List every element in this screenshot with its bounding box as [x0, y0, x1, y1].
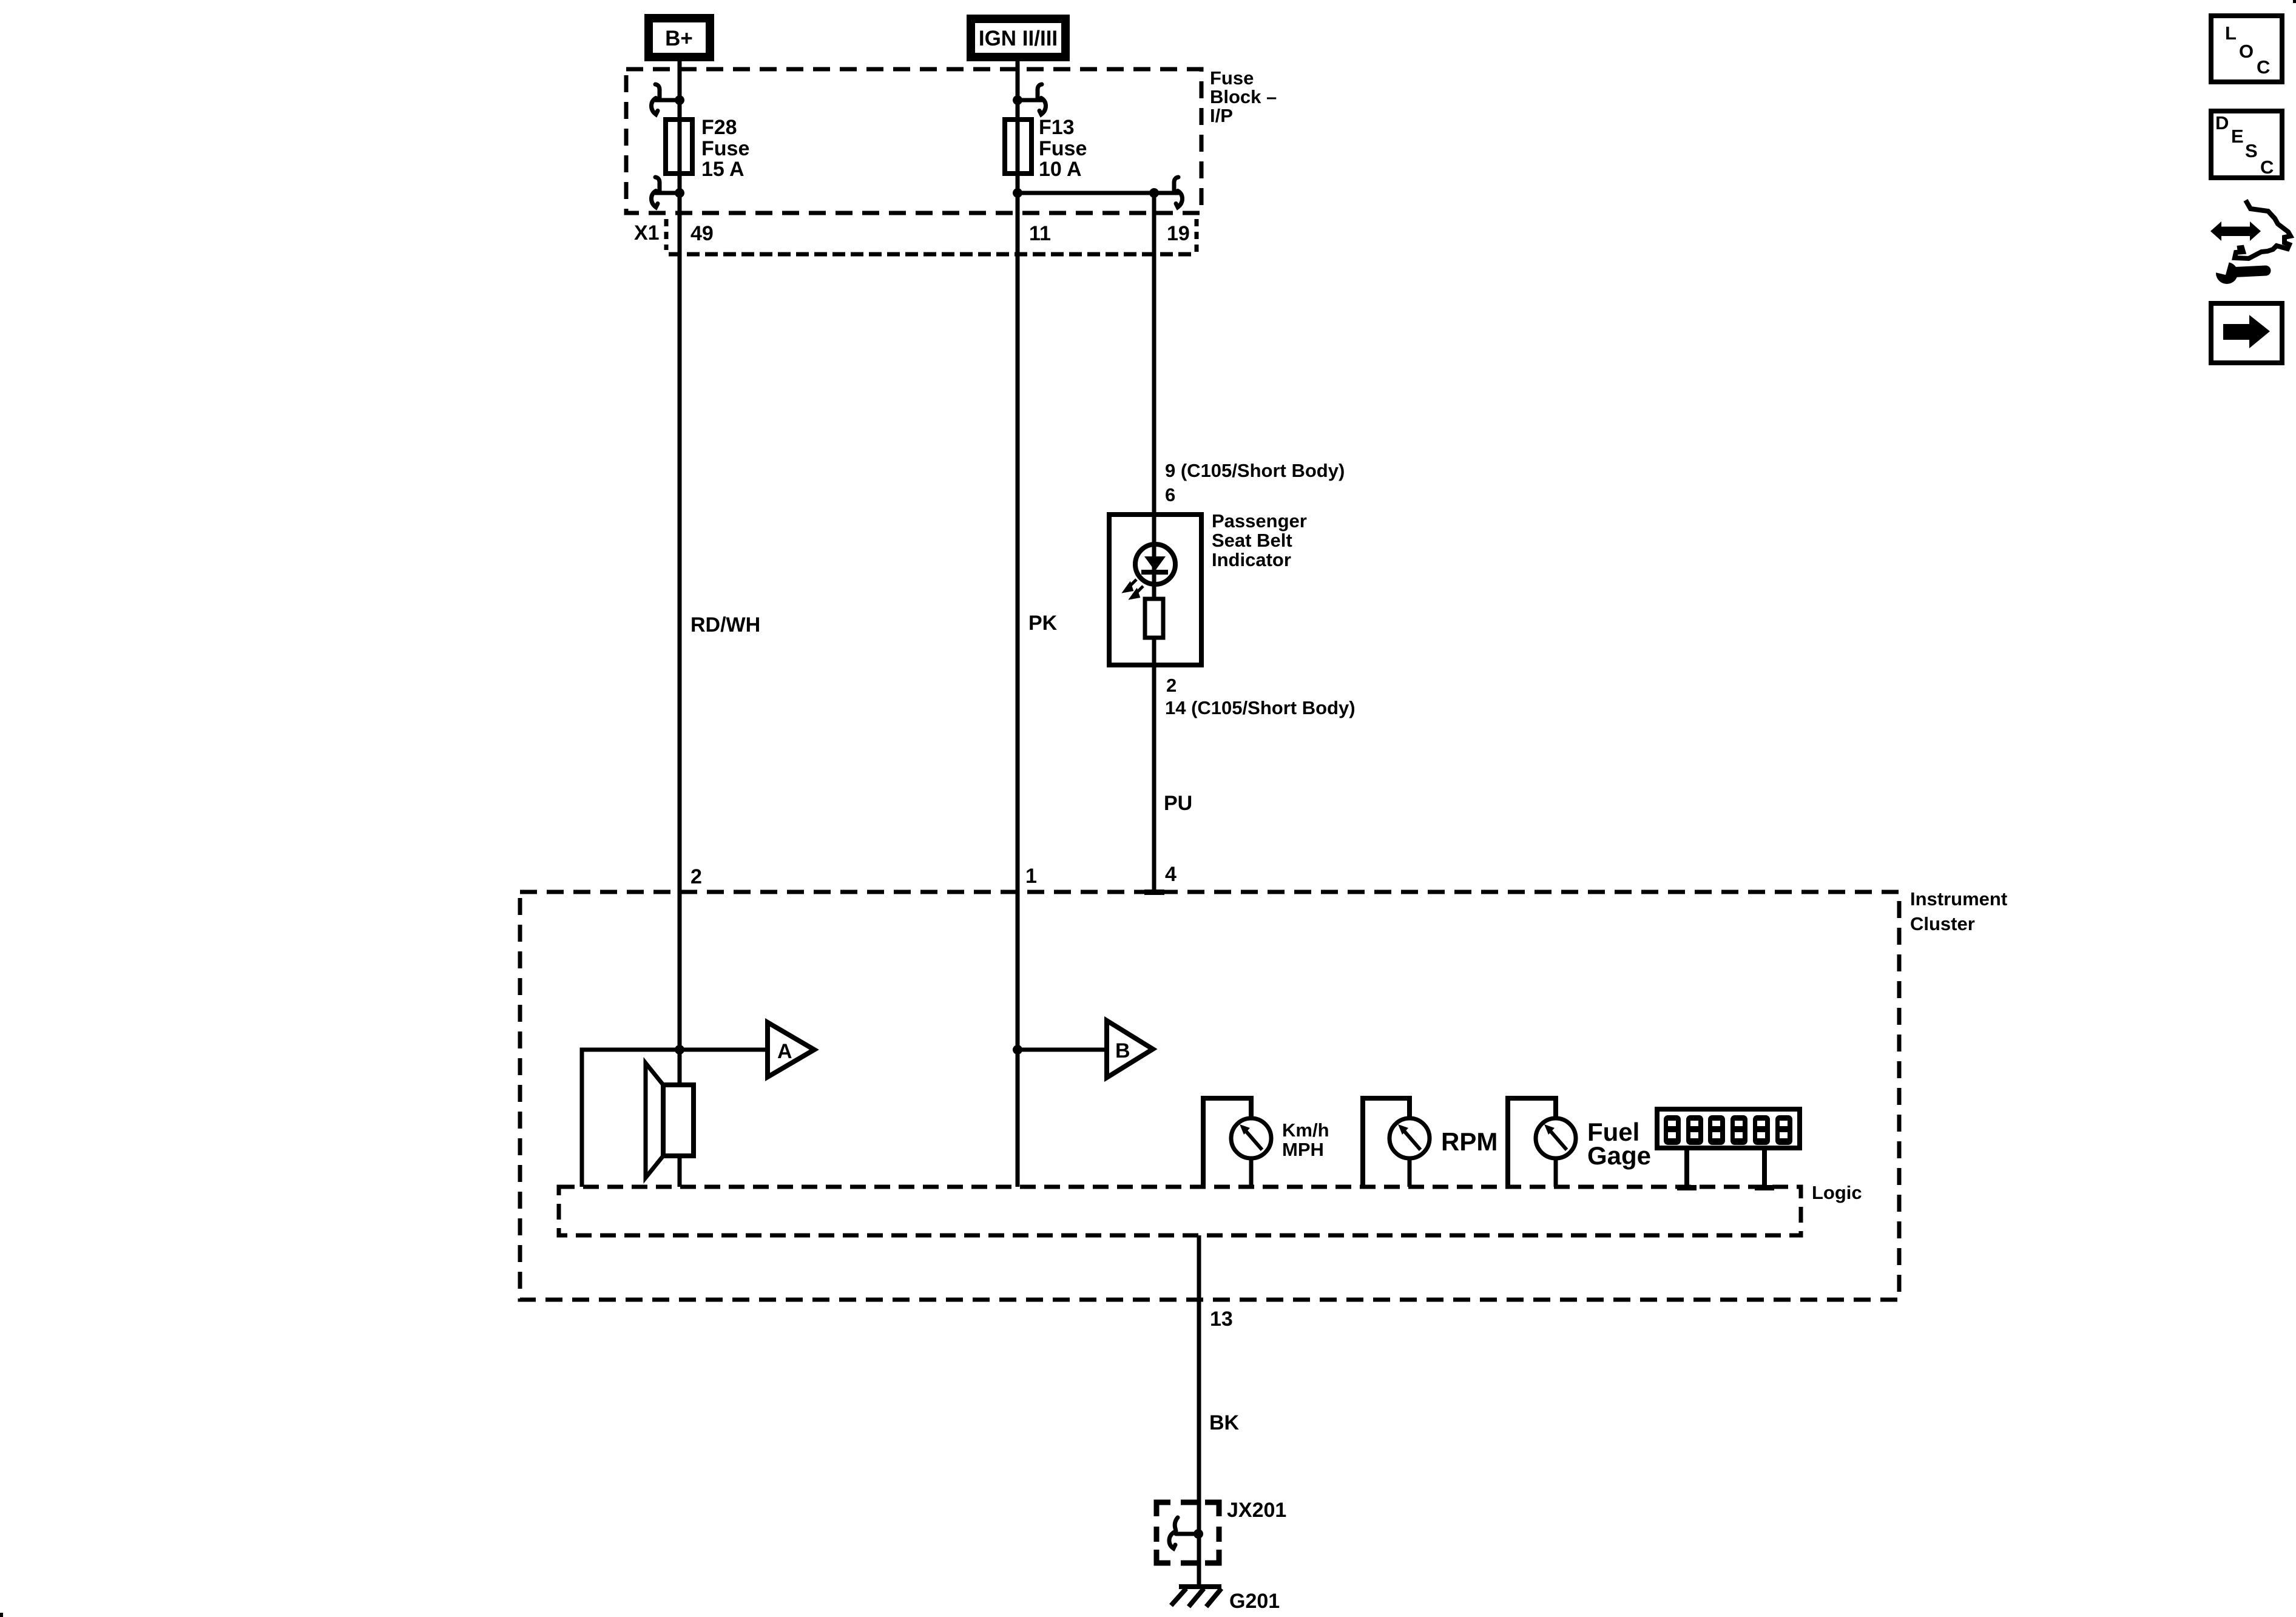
svg-text:X1: X1 [634, 221, 660, 245]
svg-text:1: 1 [1025, 865, 1037, 888]
speaker coil rectangle [663, 1085, 694, 1156]
terminal T-bar pin 4 [1144, 890, 1164, 895]
svg-text:Fuse: Fuse [1039, 137, 1087, 160]
svg-text:14 (C105/Short Body): 14 (C105/Short Body) [1165, 697, 1356, 718]
svg-text:C: C [2257, 56, 2270, 78]
connector X1 dotted right edge [1195, 219, 1199, 252]
wire junction to buffer B [1018, 1048, 1107, 1052]
svg-text:BK: BK [1209, 1411, 1240, 1434]
resistor in indicator [1145, 599, 1163, 638]
LED diode triangle [1144, 556, 1166, 571]
wire tachometer to logic [1408, 1158, 1412, 1187]
svg-text:JX201: JX201 [1227, 1499, 1286, 1522]
icon DESC box [2211, 111, 2282, 178]
wire IGN feed vertical x=1677 [1016, 61, 1020, 1187]
svg-text:49: 49 [690, 222, 714, 245]
junction dot IGN fuse input [1013, 95, 1022, 105]
fuse F28 15A [666, 120, 692, 174]
svg-text:6: 6 [1165, 484, 1175, 505]
svg-text:Instrument: Instrument [1910, 888, 2007, 910]
svg-text:RD/WH: RD/WH [690, 613, 760, 636]
wire junction to buffer A [680, 1048, 768, 1052]
icon LOC box [2211, 16, 2282, 82]
tachometer gauge circle [1389, 1118, 1430, 1158]
speedometer gauge circle [1231, 1118, 1271, 1158]
svg-text:Logic: Logic [1812, 1182, 1862, 1203]
svg-text:Seat Belt: Seat Belt [1212, 530, 1292, 551]
svg-text:A: A [777, 1040, 792, 1063]
label Passenger Seat Belt Indicator [1212, 510, 1307, 570]
fuel gauge staple [1508, 1098, 1556, 1187]
fuel gauge circle [1536, 1118, 1576, 1158]
ground symbol G201 [1171, 1584, 1221, 1607]
label Km/h MPH [1282, 1119, 1329, 1160]
fuse F13 10A [1005, 120, 1032, 174]
instrument cluster dashed box [520, 892, 1899, 1300]
tachometer gauge staple [1363, 1098, 1410, 1187]
speaker horn trapezoid [646, 1063, 663, 1178]
wire fuse F13 output branch horizontal to pin 19 [1018, 191, 1154, 195]
wire B+ feed vertical x=1120 [678, 61, 682, 1085]
buffer triangle B [1107, 1021, 1153, 1078]
svg-text:F28: F28 [701, 116, 737, 139]
power label IGN II/III [971, 19, 1065, 57]
connector X1 dotted bottom edge [669, 252, 1197, 257]
odometer display box [1657, 1109, 1800, 1148]
clip terminal in JX201 [1169, 1517, 1198, 1548]
LED diode cathode bar [1141, 570, 1168, 575]
page artifact dot bottom left [0, 1613, 3, 1617]
wire speedometer to logic [1249, 1158, 1254, 1187]
passenger seat belt indicator box [1109, 515, 1201, 665]
fuse block I/P dashed box [626, 69, 1201, 213]
svg-text:19: 19 [1167, 222, 1190, 245]
tachometer needle [1405, 1132, 1420, 1150]
svg-text:13: 13 [1210, 1308, 1233, 1331]
svg-text:Cluster: Cluster [1910, 913, 1975, 934]
speedometer gauge staple [1203, 1098, 1251, 1187]
svg-text:C: C [2260, 157, 2274, 178]
odometer digits 888888 [1664, 1115, 1792, 1145]
junction dot JX201 [1194, 1529, 1203, 1539]
wire speaker to logic [678, 1156, 682, 1187]
svg-text:E: E [2231, 126, 2244, 147]
label Fuse Block - I/P [1210, 67, 1277, 126]
svg-text:I/P: I/P [1210, 105, 1233, 126]
odometer right leg wire [1762, 1148, 1767, 1186]
icon forward arrow box [2211, 303, 2282, 363]
svg-text:Indicator: Indicator [1212, 549, 1291, 570]
power label B+ [649, 18, 710, 57]
svg-text:Fuse: Fuse [1210, 67, 1254, 89]
icon connector-end-view with arrows and wrench [2210, 200, 2291, 284]
wire pin 19 / PU vertical x=1902 [1152, 193, 1156, 892]
junction dot node B [1013, 1045, 1022, 1055]
connector X1 dotted separator [664, 219, 669, 250]
svg-text:15 A: 15 A [701, 158, 745, 181]
wire ground BK x=1976 [1197, 1235, 1201, 1587]
speedometer needle [1246, 1132, 1262, 1150]
svg-text:F13: F13 [1039, 116, 1075, 139]
svg-text:Gage: Gage [1587, 1141, 1651, 1170]
label Fuel Gage [1587, 1118, 1651, 1170]
svg-text:G201: G201 [1229, 1590, 1280, 1613]
clip terminal at pin 19 branch [1154, 177, 1183, 208]
LED lamp circle [1135, 544, 1175, 584]
svg-text:B+: B+ [665, 27, 693, 50]
svg-text:9 (C105/Short Body): 9 (C105/Short Body) [1165, 460, 1345, 481]
label Instrument Cluster [1910, 888, 2007, 934]
svg-text:Km/h: Km/h [1282, 1119, 1329, 1141]
svg-text:D: D [2215, 112, 2229, 133]
svg-text:MPH: MPH [1282, 1139, 1324, 1160]
svg-text:O: O [2239, 41, 2254, 62]
svg-text:2: 2 [690, 865, 702, 888]
wire speaker bypass loop [582, 1050, 680, 1187]
svg-text:PU: PU [1164, 792, 1192, 815]
svg-text:B: B [1115, 1039, 1130, 1062]
logic dashed box [559, 1187, 1801, 1235]
svg-text:PK: PK [1028, 612, 1058, 635]
svg-text:RPM: RPM [1441, 1127, 1497, 1156]
page artifact dot top right [2293, 0, 2296, 3]
junction dot node A [675, 1045, 684, 1055]
svg-text:L: L [2225, 22, 2237, 44]
wire fuel gauge to logic [1554, 1158, 1558, 1187]
clip terminal at B+ fuse input [652, 84, 680, 115]
junction dot B+ fuse input [675, 95, 684, 105]
svg-text:4: 4 [1165, 863, 1177, 886]
fuel gauge needle [1551, 1132, 1567, 1150]
svg-text:2: 2 [1166, 675, 1177, 696]
clip terminal at F28 fuse output [652, 177, 680, 208]
buffer triangle A [768, 1022, 814, 1077]
splice JX201 dashed box [1156, 1502, 1219, 1563]
odometer left leg wire [1684, 1148, 1689, 1186]
svg-text:Fuse: Fuse [701, 137, 749, 160]
junction dot pin 19 branch [1149, 188, 1159, 198]
svg-text:IGN II/III: IGN II/III [979, 27, 1058, 50]
svg-text:S: S [2245, 140, 2258, 161]
svg-text:Passenger: Passenger [1212, 510, 1307, 532]
svg-text:Block –: Block – [1210, 86, 1277, 107]
junction dot F13 fuse output [1013, 188, 1022, 198]
svg-text:10 A: 10 A [1039, 158, 1082, 181]
svg-text:11: 11 [1029, 222, 1051, 245]
clip terminal at IGN fuse input [1018, 84, 1046, 115]
junction dot F28 fuse output [675, 188, 684, 198]
LED emission arrows [1125, 579, 1143, 598]
